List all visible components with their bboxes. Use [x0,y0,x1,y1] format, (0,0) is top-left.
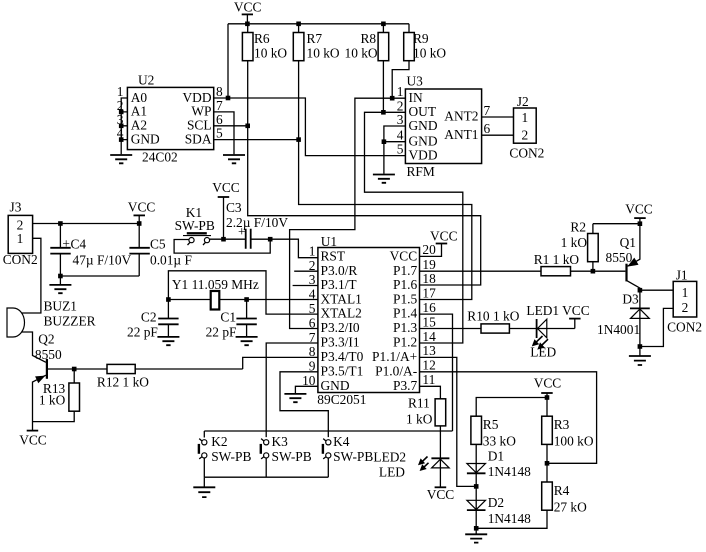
svg-text:12: 12 [422,358,435,373]
svg-text:R6: R6 [254,31,270,46]
svg-text:VCC: VCC [19,433,47,448]
svg-text:C5: C5 [150,237,166,252]
pushbutton K1 SW-PB [175,205,215,245]
junction dot U2 pin4 [119,137,124,142]
junction dot crystal right / C1 [244,297,249,302]
svg-text:R4: R4 [554,483,570,498]
svg-text:IN: IN [409,90,423,105]
junction dot U2 pin3 [119,124,124,129]
U2 pin number 7 [216,98,223,113]
svg-text:R11: R11 [408,396,430,411]
power VCC (LED2) [427,487,455,502]
U2 pin number 2 [117,98,124,113]
transistor Q2 8550 [33,331,75,430]
svg-text:3: 3 [397,112,404,127]
svg-text:LED2: LED2 [373,450,406,465]
U3 pin number 6 [484,121,491,136]
U3 pin number 2 [397,98,404,113]
wire ANT2 to J2 [482,116,514,118]
svg-text:GND: GND [409,118,438,133]
svg-text:1: 1 [309,244,316,259]
svg-text:11: 11 [422,372,435,387]
svg-text:BUZ1: BUZ1 [44,299,77,314]
svg-text:7: 7 [484,103,491,118]
svg-text:CON2: CON2 [667,320,702,335]
junction dot C3/K1 bypass [268,237,273,242]
resistor R3 100kO [542,398,594,464]
junction dot U3 GND [382,139,387,144]
wire SDA net R7 to U1 P1.5 [299,140,472,300]
junction dot VCC/K1 line [221,237,226,242]
svg-text:5: 5 [397,142,404,157]
svg-text:27 kO: 27 kO [554,500,587,515]
svg-text:GND: GND [131,131,160,146]
ground (C1) [236,337,258,345]
pushbutton K2 SW-PB [199,431,252,477]
wire SCL stub [214,125,248,127]
wire U3 OUT net to U1 P1.2 [365,112,463,343]
svg-text:K3: K3 [272,434,289,449]
wire U1 pin11 to R11 [420,386,441,399]
wire U1 pin10 GND [295,386,318,393]
wire buzzer to Q2 collector [22,332,46,362]
ground (D3) [629,347,651,366]
wire C3 to U1 RST [251,239,318,258]
svg-text:R7: R7 [307,31,323,46]
U1 pin number 13 [422,343,436,358]
svg-text:K2: K2 [211,434,227,449]
svg-text:5: 5 [216,126,223,141]
svg-text:K4: K4 [333,434,350,449]
svg-text:47µ F/10V: 47µ F/10V [73,253,132,268]
U1 pin number 14 [422,329,436,344]
svg-text:ANT1: ANT1 [444,127,478,142]
svg-text:89C2051: 89C2051 [317,392,366,407]
U2 pin number 5 [216,126,223,141]
svg-text:7: 7 [216,98,223,113]
diode LED2 [373,450,449,488]
resistor R6 [242,24,287,126]
svg-text:1 kO: 1 kO [406,412,433,427]
ground (U2 WP) [223,155,245,163]
junction dot SCL/R6 [245,124,250,129]
svg-text:P1.3: P1.3 [393,320,417,335]
wire R12 to U1 P3.4 [243,357,318,369]
svg-text:CON2: CON2 [509,146,544,161]
svg-text:C3: C3 [226,200,242,215]
svg-text:6: 6 [309,315,316,330]
svg-text:U2: U2 [138,73,154,88]
junction dot Q1 collector/J1 [638,288,643,293]
buzzer BUZ1 [7,299,96,337]
junction dot Q2 base/R13 [72,367,77,372]
svg-text:A2: A2 [131,118,147,133]
svg-text:1: 1 [397,84,404,99]
svg-text:8550: 8550 [35,347,62,362]
svg-text:R9: R9 [413,31,429,46]
wire U2 pins 1-4 to ground [121,98,127,154]
svg-text:1N4001: 1N4001 [597,322,640,337]
svg-text:VDD: VDD [409,147,438,162]
junction dot C4 bottom [58,274,63,279]
capacitor C3 2.2uF/10V [226,200,288,249]
power VCC (top) [234,0,262,24]
wire K1 left bypass to C3 right [174,239,270,253]
svg-text:17: 17 [422,286,436,301]
svg-text:A0: A0 [131,90,148,105]
svg-text:J3: J3 [10,199,22,214]
U2 pin number 3 [117,112,124,127]
svg-text:R8: R8 [361,31,377,46]
svg-text:VCC: VCC [430,229,458,244]
U3 pin number 1 [397,84,404,99]
resistor R13 1kO [33,369,80,422]
svg-text:XTAL1: XTAL1 [321,291,362,306]
U2 pin number 8 [216,84,223,99]
U1 pin number 3 [309,272,316,287]
resistor R9 [392,24,446,98]
capacitor C2 22pF [127,300,179,340]
U1 pin number 19 [422,257,436,272]
svg-text:P1.5: P1.5 [393,291,417,306]
wire SDA stub [214,139,299,141]
svg-text:D3: D3 [622,292,639,307]
svg-text:P1.1/A+: P1.1/A+ [372,349,417,364]
wire U3 GND pins [384,126,406,174]
svg-text:SW-PB: SW-PB [211,449,251,464]
svg-text:1: 1 [682,285,689,300]
junction dot bus/R8 [381,22,386,27]
connector J3 CON2 [3,199,38,267]
wire U1 pin9 to K4 [280,372,328,437]
wire Q1 to J1 pin1 [640,289,673,291]
svg-text:SW-PB: SW-PB [175,218,215,233]
wire J1 pin2 to ground node [640,308,673,346]
svg-text:1: 1 [17,231,24,246]
svg-text:22 pF: 22 pF [206,325,237,340]
svg-text:5: 5 [309,301,316,316]
svg-text:4: 4 [309,287,316,302]
svg-text:1: 1 [117,84,124,99]
wire ANT1 to J2 [482,134,514,136]
svg-text:VCC: VCC [534,376,562,391]
junction dot C4 top [58,221,63,226]
junction dot OUT/R8 [381,110,386,115]
svg-text:GND: GND [409,133,438,148]
transistor Q1 8550 [606,224,640,291]
power VCC (U1 pin20) [430,229,458,244]
svg-text:2: 2 [521,128,528,143]
junction dot C5/VCC top [137,221,142,226]
U2 pin number 6 [216,112,223,127]
svg-text:VCC: VCC [427,487,455,502]
junction dot bus/R7 [296,22,301,27]
svg-text:8550: 8550 [606,250,633,265]
resistor R1 1kO [534,252,626,276]
svg-text:P3.3/I1: P3.3/I1 [321,335,360,350]
svg-text:Y1 11.059 MHz: Y1 11.059 MHz [172,277,259,292]
resistor R10 1kO [420,309,537,334]
svg-text:A1: A1 [131,104,147,119]
svg-text:22 pF: 22 pF [127,325,158,340]
junction dot U2 pin2 [119,110,124,115]
junction dot VCC/R2 [638,221,643,226]
power VCC (R5/R3) [534,376,562,398]
U1 pin number 7 [309,330,316,345]
resistor R2 1kO [561,220,599,272]
svg-text:1: 1 [521,110,528,125]
U1 pin number 6 [309,315,316,330]
power VCC (Q2 emitter) [19,431,47,448]
svg-text:P1.7: P1.7 [393,263,417,278]
svg-text:0.01µ F: 0.01µ F [150,253,192,268]
svg-text:R1 1 kO: R1 1 kO [534,252,580,267]
svg-text:10 kO: 10 kO [345,46,378,61]
svg-text:16: 16 [422,300,436,315]
svg-text:SW-PB: SW-PB [272,449,312,464]
power VCC (Q1) [625,202,653,224]
svg-text:LED1: LED1 [526,303,559,318]
resistor R4 27kO [476,463,587,528]
svg-text:20: 20 [422,242,436,257]
ground (C2) [157,337,179,345]
svg-text:C4: C4 [71,237,87,252]
wire U1 pin12 to R3/R4 node [420,372,597,464]
junction dot crystal left [166,297,171,302]
svg-text:D2: D2 [488,495,504,510]
svg-text:VCC: VCC [234,0,262,15]
svg-text:2.2µ F/10V: 2.2µ F/10V [226,215,288,230]
U1 pin number 10 [302,373,316,388]
U2 pin number 1 [117,84,124,99]
U1 pin number 16 [422,300,436,315]
svg-text:100 kO: 100 kO [554,434,594,449]
junction dot U2 pin8/bus [226,96,231,101]
svg-text:C1: C1 [220,310,236,325]
IC U2 24C02 [127,73,213,165]
U1 pin number 15 [422,314,436,329]
svg-text:8: 8 [216,84,223,99]
U2 pin number 4 [117,126,124,141]
svg-text:1 kO: 1 kO [561,235,588,250]
U3 pin number 3 [397,112,404,127]
pushbutton K3 SW-PB [261,434,312,477]
svg-text:P1.4: P1.4 [393,306,417,321]
svg-text:6: 6 [484,121,491,136]
svg-text:RST: RST [321,248,346,263]
resistor R11 1kO [406,396,446,459]
svg-text:P3.0/R: P3.0/R [321,263,358,278]
power VCC (LED1) [562,303,590,328]
U3 pin number 4 [397,128,404,143]
junction dot R1/R2 [591,269,596,274]
svg-text:J2: J2 [517,94,529,109]
svg-text:OUT: OUT [409,104,437,119]
svg-text:ANT2: ANT2 [444,109,478,124]
diode D3 1N4001 [597,290,650,346]
svg-text:R10 1 kO: R10 1 kO [467,309,519,324]
svg-text:P3.1/T: P3.1/T [321,277,357,292]
wire J3 pin1 to buzzer [22,238,41,313]
capacitor C4 47uF/10V [50,224,131,277]
junction dot R3/R4 [545,461,550,466]
svg-text:SDA: SDA [185,131,212,146]
U1 pin number 9 [309,359,316,374]
svg-text:2: 2 [682,300,689,315]
diode LED1 [526,303,574,359]
svg-text:VCC: VCC [390,248,418,263]
wire U1 pin3 stub [293,285,318,287]
IC U3 RFM [405,74,481,180]
junction dot SDA/R7 [296,137,301,142]
ground (C4) [49,276,71,293]
U1 pin number 17 [422,286,436,301]
junction dot D2/R4 ground node [474,526,479,531]
svg-text:R3: R3 [554,417,570,432]
svg-text:R12 1 kO: R12 1 kO [97,374,149,389]
ground (keys) [193,477,215,497]
U1 pin number 11 [422,372,435,387]
U1 pin number 20 [422,242,436,257]
svg-text:J1: J1 [676,268,688,283]
resistor R12 1kO [74,364,243,389]
junction dot VCC bus/R6 [245,22,250,27]
resistor R5 33kO [471,416,516,463]
svg-text:P3.4/T0: P3.4/T0 [321,349,364,364]
wire SCL net R6 to U1 P1.6 [248,126,481,285]
capacitor C5 0.01uF [129,224,192,277]
ground (U3) [373,175,395,183]
junction dot IN/R9 [390,96,395,101]
svg-text:8: 8 [309,344,316,359]
svg-text:1N4148: 1N4148 [488,464,531,479]
svg-text:P3.2/I0: P3.2/I0 [321,320,360,335]
ground (D1/D2) [465,528,487,542]
svg-text:VDD: VDD [182,90,211,105]
resistor R8 [345,24,389,113]
IC U1 89C2051 [317,234,419,407]
wire K1 right to C3 left [210,238,246,240]
svg-text:XTAL2: XTAL2 [321,306,362,321]
svg-text:U1: U1 [321,234,337,249]
svg-text:P3.5/T1: P3.5/T1 [321,363,364,378]
svg-text:VCC: VCC [562,303,590,318]
wire J3 pin2 VCC rail [33,223,140,225]
wire key bottom rail [204,476,328,478]
svg-text:19: 19 [422,257,436,272]
wire U1 pin2 stub [294,270,318,272]
svg-text:Q2: Q2 [38,331,54,346]
wire VCC bus to U2 pin8 [227,24,229,98]
svg-text:C2: C2 [141,310,157,325]
svg-text:RFM: RFM [407,164,435,179]
svg-text:WP: WP [191,104,211,119]
svg-text:13: 13 [422,343,436,358]
svg-text:P1.0/A-: P1.0/A- [375,363,417,378]
U1 pin number 18 [422,271,436,286]
junction dot D1/D2 node [474,484,479,489]
wire U1 pin16 to key rail [420,314,453,431]
svg-text:33 kO: 33 kO [483,434,516,449]
svg-text:R2: R2 [570,220,586,235]
U1 pin number 1 [309,244,316,259]
wire U1 pin13 to D1/D2 node [420,357,477,486]
wire key top rail [204,430,452,432]
svg-text:GND: GND [321,378,350,393]
wire U2 WP to ground [214,112,234,154]
svg-text:1N4148: 1N4148 [488,511,531,526]
svg-text:6: 6 [216,112,223,127]
svg-text:P1.6: P1.6 [393,277,417,292]
junction dot VCC/R5/R3 [545,395,550,400]
svg-text:U3: U3 [407,74,424,89]
connector J2 CON2 [509,94,544,161]
svg-text:SCL: SCL [187,118,212,133]
U1 pin number 5 [309,301,316,316]
wire VCC to R2 top [593,223,640,225]
svg-text:VCC: VCC [625,202,653,217]
wire U1 pin20 to VCC [420,244,442,257]
diode D2 1N4148 [467,495,531,528]
svg-text:BUZZER: BUZZER [44,314,96,329]
wire U3 IN net to U1 P3.2 [290,98,406,328]
svg-text:VCC: VCC [128,199,156,214]
crystal Y1 11.059MHz [168,271,318,314]
ground (U1 GND) [284,394,306,402]
U1 pin number 8 [309,344,316,359]
svg-text:1 kO: 1 kO [39,393,66,408]
svg-text:D1: D1 [488,449,504,464]
wire C4/C5 bottom rail [60,275,139,277]
svg-text:R5: R5 [483,417,499,432]
svg-text:14: 14 [422,329,436,344]
U1 pin number 12 [422,358,435,373]
power VCC (C5) [128,199,156,223]
svg-text:24C02: 24C02 [142,150,178,165]
svg-text:18: 18 [422,271,436,286]
wire VCC top bus [228,23,409,25]
svg-text:CON2: CON2 [3,252,38,267]
svg-text:10 kO: 10 kO [413,46,446,61]
ground (U2 left) [110,155,132,163]
power VCC (K1/C3) [212,180,240,239]
svg-text:15: 15 [422,314,436,329]
connector J1 CON2 [667,268,702,335]
U3 pin number 7 [484,103,491,118]
svg-text:P1.2: P1.2 [393,335,417,350]
U3 pin number 5 [397,142,404,157]
svg-text:±: ± [63,236,70,251]
wire VCC node to R5 [476,398,547,417]
U1 pin number 2 [309,258,316,273]
svg-text:VCC: VCC [212,180,240,195]
capacitor C1 22pF [206,300,257,340]
svg-text:P3.7: P3.7 [393,378,417,393]
wire U1 pin7 to K3 [266,343,318,437]
resistor R7 [293,24,340,140]
wire U1 pin19 to R1 [420,270,542,272]
svg-text:Q1: Q1 [620,235,636,250]
svg-text:10 kO: 10 kO [307,46,340,61]
wire U2 VDD to VCC and U3 VDD [214,98,406,156]
pushbutton K4 SW-PB [323,434,373,477]
svg-text:LED: LED [379,465,405,480]
svg-text:4: 4 [397,128,404,143]
svg-text:10 kO: 10 kO [254,46,287,61]
junction dot D3/ground/J1 pin2 [638,344,643,349]
U1 pin number 4 [309,287,316,302]
diode D1 1N4148 [467,449,531,501]
